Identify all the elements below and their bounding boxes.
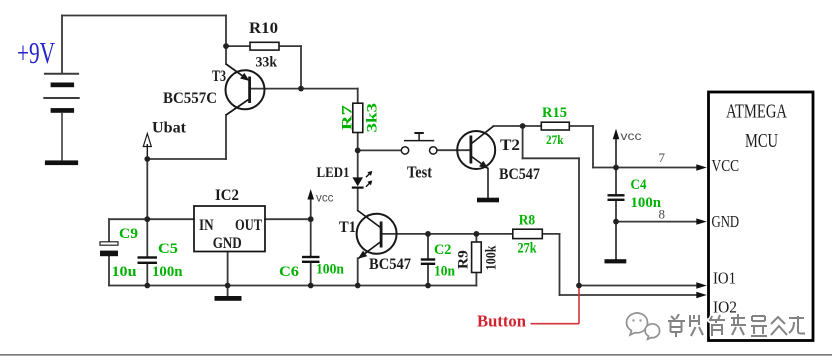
svg-text:8: 8 — [659, 207, 666, 222]
wire R10 left lead — [226, 45, 250, 47]
wire ground rail — [109, 285, 476, 287]
wire IC2 IN rail — [109, 218, 194, 220]
node junction R10 base — [298, 86, 304, 92]
node junction R10 left — [223, 43, 229, 49]
wire R15 right lead — [569, 125, 593, 127]
node junction R9 top — [474, 231, 480, 237]
wire T2 emitter vertical — [487, 169, 489, 198]
node junction GND row — [613, 219, 619, 225]
svg-text:C4: C4 — [631, 177, 647, 193]
svg-text:100k: 100k — [484, 245, 500, 270]
wire C6 bottom lead — [310, 263, 312, 286]
node junction C5 rail — [144, 283, 150, 289]
pin arrow GND — [696, 218, 707, 224]
node junction Ubat — [144, 156, 150, 162]
wire R7 top lead — [357, 89, 359, 104]
resistor R15 — [541, 122, 569, 130]
svg-text:C6: C6 — [279, 264, 300, 280]
wire Button leader red — [531, 286, 579, 324]
node junction IN rail — [144, 216, 150, 222]
capacitor C5 — [138, 256, 158, 264]
node junction T1 emitter rail — [355, 283, 361, 289]
wire IO1 row — [579, 285, 697, 287]
svg-text:R10: R10 — [249, 20, 278, 37]
svg-text:IC2: IC2 — [215, 187, 239, 204]
wire battery top lead — [61, 16, 63, 74]
node junction OUT vcc — [308, 216, 314, 222]
ground under T2 — [477, 198, 499, 203]
wire R8 right lead — [542, 233, 559, 235]
node junction IO1 button — [576, 283, 582, 289]
transistor T1 — [357, 211, 397, 259]
svg-text:C5: C5 — [158, 241, 178, 257]
svg-text:GND: GND — [712, 212, 740, 231]
svg-text:+9V: +9V — [17, 35, 55, 70]
wire C2 top lead — [427, 234, 429, 259]
ground under C4 — [605, 259, 627, 263]
wire R7 to switch — [358, 149, 402, 151]
node junction C2 top — [425, 231, 431, 237]
resistor R7 — [353, 103, 363, 132]
wire LED top lead — [357, 150, 359, 177]
wire top +9V rail — [62, 15, 226, 17]
svg-text:R7: R7 — [340, 105, 356, 131]
power vcc arrow at C4 — [613, 129, 620, 140]
svg-text:GND: GND — [213, 235, 242, 252]
svg-text:T2: T2 — [500, 137, 520, 154]
wire vcc arrow stem at C4 — [615, 137, 617, 195]
power vcc arrow at C6 — [307, 189, 314, 200]
wire LED cathode to T1 collector — [357, 189, 359, 211]
resistor R8 — [513, 229, 543, 238]
node Ubat arrow — [143, 134, 151, 160]
watermark logo — [627, 313, 660, 339]
svg-text:Ubat: Ubat — [152, 120, 187, 137]
node junction GND rail — [225, 283, 231, 289]
svg-text:IN: IN — [199, 217, 214, 234]
svg-text:LED1: LED1 — [317, 165, 350, 181]
svg-text:R8: R8 — [519, 213, 535, 229]
node junction T2 collector — [520, 123, 526, 129]
capacitor C2 — [421, 258, 435, 265]
svg-text:MCU: MCU — [745, 130, 778, 152]
wire C4 bottom lead — [615, 201, 617, 222]
wire C6 top lead — [310, 219, 312, 256]
wire T3 collector vertical — [225, 115, 227, 159]
wire collector drop vertical — [522, 126, 524, 158]
watermark text — [668, 314, 805, 337]
wire C9 top lead — [108, 219, 110, 242]
capacitor C4 — [608, 194, 625, 201]
switch S1 Test — [401, 133, 437, 154]
wire R7 bottom lead — [357, 133, 359, 151]
capacitor C6 — [302, 256, 320, 263]
svg-text:T3: T3 — [212, 68, 226, 85]
resistor R10 — [250, 42, 279, 50]
wire C2 bottom lead — [427, 265, 429, 286]
transistor T3 — [226, 64, 265, 115]
svg-text:C9: C9 — [119, 226, 138, 242]
node junction R7 switch — [355, 148, 361, 154]
wire IC2 GND lead — [227, 252, 229, 297]
wire T1 base row — [383, 233, 513, 235]
svg-text:vcc: vcc — [316, 191, 334, 205]
node junction C6 rail — [308, 283, 314, 289]
ground under IC2 — [215, 296, 242, 301]
IC U IC2 box — [194, 206, 265, 252]
bottom separator line — [0, 354, 832, 356]
wire T2 collector bend — [494, 125, 542, 127]
svg-text:C2: C2 — [434, 242, 451, 258]
svg-text:BC547: BC547 — [499, 166, 540, 183]
svg-text:VCC: VCC — [712, 156, 740, 175]
pin arrow VCC — [696, 164, 707, 170]
node junction C2 bottom — [425, 283, 431, 289]
wire Ubat node horizontal — [147, 158, 226, 160]
wire R15 to VCC row — [592, 126, 594, 168]
svg-text:vcc: vcc — [621, 129, 642, 143]
wire R10 to base — [300, 46, 302, 89]
wire drop horizontal — [523, 157, 579, 159]
LED LED1 — [352, 171, 373, 189]
svg-text:27k: 27k — [518, 241, 538, 257]
wire C5 bottom lead — [146, 264, 148, 286]
svg-text:IO2: IO2 — [713, 298, 737, 317]
svg-text:R15: R15 — [542, 105, 567, 121]
capacitor C9 — [100, 242, 118, 256]
wire VCC pin row — [593, 167, 697, 169]
pin arrow IO2 — [696, 292, 707, 298]
svg-text:3k3: 3k3 — [365, 103, 381, 133]
svg-text:33k: 33k — [256, 54, 278, 70]
wire switch to T2 base — [437, 149, 470, 151]
wire vcc arrow stem at C6 — [310, 197, 312, 220]
svg-text:10u: 10u — [112, 264, 137, 280]
wire C9 bottom lead — [108, 256, 110, 286]
svg-text:IO1: IO1 — [713, 269, 736, 288]
wire IC2 OUT lead — [265, 218, 311, 220]
svg-text:Test: Test — [407, 163, 432, 182]
wire GND pin row — [616, 221, 697, 223]
svg-text:T1: T1 — [339, 219, 356, 236]
wire R8 down — [559, 234, 561, 295]
wire T3 base to R7 — [251, 88, 358, 90]
transistor T2 — [457, 126, 495, 169]
resistor R9 — [472, 242, 482, 273]
wire Ubat node down to IN rail — [146, 159, 148, 219]
svg-text:100n: 100n — [316, 262, 345, 278]
svg-text:27k: 27k — [546, 132, 564, 147]
svg-text:10n: 10n — [434, 264, 456, 280]
svg-text:R9: R9 — [455, 250, 471, 269]
pin arrow IO1 — [696, 282, 707, 288]
svg-text:BC547: BC547 — [369, 256, 411, 273]
wire IO2 row — [560, 294, 698, 296]
svg-text:ATMEGA: ATMEGA — [726, 101, 787, 123]
svg-text:100n: 100n — [152, 264, 183, 280]
svg-text:Button: Button — [477, 312, 527, 331]
wire C4 to ground bar — [615, 222, 617, 260]
wire R9 bottom lead — [475, 273, 477, 286]
wire R10 right lead — [279, 45, 301, 47]
wire drop to IO1 node — [578, 158, 580, 285]
battery B1 — [43, 74, 79, 165]
node junction VCC row — [613, 165, 619, 171]
svg-text:100n: 100n — [631, 195, 662, 211]
IC MCU box ATMEGA — [709, 92, 814, 341]
svg-text:OUT: OUT — [235, 217, 262, 234]
wire C5 top lead — [146, 219, 148, 256]
svg-text:7: 7 — [659, 150, 666, 165]
svg-text:BC557C: BC557C — [163, 90, 217, 107]
wire R9 top lead — [475, 234, 477, 242]
wire T1 emitter vertical — [357, 258, 359, 285]
wire T3 emitter vertical — [225, 16, 227, 65]
